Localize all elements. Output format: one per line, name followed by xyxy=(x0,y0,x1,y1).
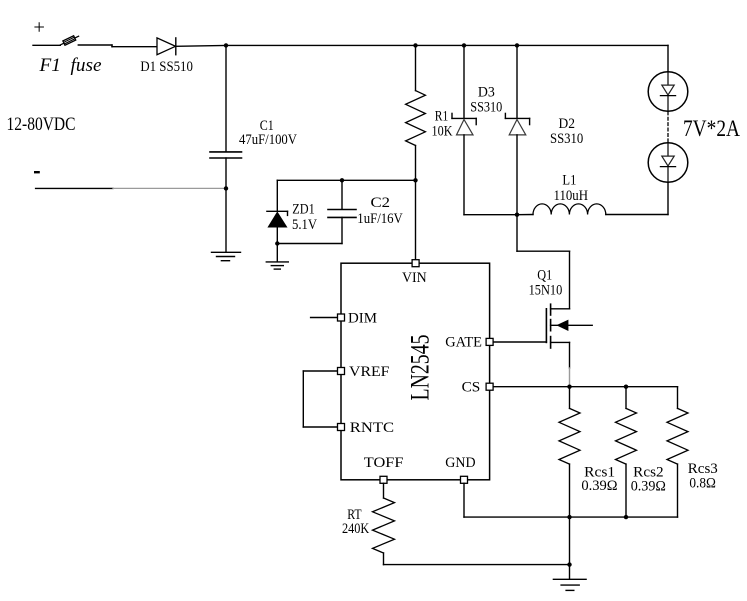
svg-text:GATE: GATE xyxy=(445,335,482,351)
svg-text:0.39Ω: 0.39Ω xyxy=(581,478,617,494)
wire minus rail (gray part) xyxy=(113,187,226,189)
resistor Rcs1 xyxy=(559,408,580,464)
svg-text:1uF/16V: 1uF/16V xyxy=(357,211,403,227)
LED lamp 2 xyxy=(648,143,688,183)
wire top rail to D2 xyxy=(516,45,518,118)
svg-text:15N10: 15N10 xyxy=(529,283,563,299)
wire GATE to Q1 gate xyxy=(493,341,546,343)
diode D1 xyxy=(157,38,176,55)
pin GATE xyxy=(486,338,493,345)
svg-text:DIM: DIM xyxy=(348,310,377,326)
wire R1 to VIN xyxy=(415,146,417,260)
wire D2 bottom lead xyxy=(516,135,518,215)
svg-text:5.1V: 5.1V xyxy=(292,217,317,233)
node junction ZD1 rail / C2 xyxy=(340,178,344,182)
resistor R1 xyxy=(406,91,426,146)
node - terminal xyxy=(34,171,40,173)
transistor Q1 15N10 xyxy=(546,251,592,387)
LED lamp 1 xyxy=(648,72,688,112)
diode D2 (schottky) xyxy=(505,113,529,134)
node junction RT rail / ground xyxy=(567,562,571,566)
resistor RT xyxy=(373,498,395,553)
wire Rcs2 bottom xyxy=(625,464,627,517)
wire C1 to ground xyxy=(225,158,227,252)
wire TOFF to RT xyxy=(383,483,385,498)
pin GND xyxy=(461,476,468,483)
node junction ZD1 rail / R1-VIN xyxy=(413,178,417,182)
wire bottom rail to ground xyxy=(569,517,571,579)
wire C2 bottom to ZD1 xyxy=(277,243,342,245)
node junction CS / Q1 source / Rcs1 xyxy=(567,385,571,389)
pin VREF xyxy=(338,368,345,375)
svg-text:0.8Ω: 0.8Ω xyxy=(689,476,716,492)
wire Rcs bottom rail xyxy=(464,516,678,518)
capacitor C2 xyxy=(328,210,356,218)
wire ZD1 top lead xyxy=(276,180,278,211)
wire ZD1 bottom lead xyxy=(276,227,278,261)
node junction top rail / D2 xyxy=(515,43,519,47)
wire D2 junction to Q1 drain xyxy=(517,215,570,252)
IC U1 LN2545 xyxy=(341,263,490,480)
wire CS rail to Rcs1 xyxy=(569,387,571,409)
svg-text:D3: D3 xyxy=(478,84,495,100)
wire top rail to C1 xyxy=(225,45,227,151)
svg-text:0.39Ω: 0.39Ω xyxy=(631,478,666,494)
svg-text:SS310: SS310 xyxy=(550,131,583,147)
node junction bottom rail / Rcs1 xyxy=(567,515,571,519)
svg-text:C2: C2 xyxy=(371,195,391,211)
svg-text:10K: 10K xyxy=(432,124,453,140)
wire Rcs1 bottom xyxy=(569,464,571,517)
svg-text:+: + xyxy=(33,17,45,39)
wire C2 bottom lead xyxy=(341,217,343,243)
ground bottom right xyxy=(553,579,586,590)
svg-text:Q1: Q1 xyxy=(537,268,552,284)
wire top rail down to LED1 xyxy=(667,45,669,71)
svg-text:VIN: VIN xyxy=(402,270,427,286)
resistor Rcs3 xyxy=(667,408,688,464)
wire RT bottom to ground node xyxy=(384,553,570,565)
svg-text:D1 SS510: D1 SS510 xyxy=(140,59,193,75)
wire top rail to R1 xyxy=(415,45,417,90)
node junction top rail / R1 xyxy=(413,43,417,47)
svg-text:12-80VDC: 12-80VDC xyxy=(7,114,76,135)
wire L1 to LED string xyxy=(606,182,668,214)
svg-text:GND: GND xyxy=(445,455,475,471)
svg-text:240K: 240K xyxy=(342,521,370,537)
wire plus input to fuse xyxy=(33,44,60,46)
svg-text:Rcs3: Rcs3 xyxy=(688,461,718,477)
wire CS rail xyxy=(493,386,678,388)
zener diode ZD1 xyxy=(267,211,288,227)
node junction top rail / C1 xyxy=(224,43,228,47)
node junction minus rail / C1 xyxy=(224,186,228,190)
svg-text:F1 fuse: F1 fuse xyxy=(38,55,101,76)
svg-text:110uH: 110uH xyxy=(554,188,589,204)
svg-text:7V*2A: 7V*2A xyxy=(683,116,740,141)
pin TOFF xyxy=(380,476,387,483)
wire C2 top lead xyxy=(341,180,343,209)
svg-text:R1: R1 xyxy=(435,108,449,124)
wire junction to L1 xyxy=(517,214,533,216)
wire CS rail corner to Rcs3 xyxy=(677,387,679,409)
ground below C1 xyxy=(212,252,241,260)
wire VREF to RNTC loop xyxy=(303,371,337,427)
wire dotted LED1 to LED2 xyxy=(667,112,669,143)
wire D1 to top rail junction xyxy=(176,44,226,47)
svg-text:VREF: VREF xyxy=(349,364,390,380)
fuse F1 xyxy=(60,36,78,46)
wire GND pin down xyxy=(463,483,465,517)
pin CS xyxy=(486,383,493,390)
svg-text:RNTC: RNTC xyxy=(350,420,394,436)
svg-text:CS: CS xyxy=(462,379,481,395)
wire top rail xyxy=(226,44,668,46)
svg-text:D2: D2 xyxy=(559,116,576,132)
resistor Rcs2 xyxy=(616,408,637,464)
ground below ZD1 xyxy=(266,262,288,269)
capacitor C1 xyxy=(210,152,242,158)
pin DIM xyxy=(338,314,345,321)
svg-text:47uF/100V: 47uF/100V xyxy=(239,132,297,148)
wire D3 bottom lead xyxy=(463,135,465,215)
node junction ZD1 / C2 bottom xyxy=(275,241,279,245)
wire D3 to L1 junction xyxy=(464,214,517,216)
wire fuse to D1 xyxy=(78,45,157,47)
wire CS rail to Rcs2 xyxy=(625,387,627,409)
inductor L1 xyxy=(533,204,606,215)
svg-text:TOFF: TOFF xyxy=(364,455,404,471)
svg-text:LN2545: LN2545 xyxy=(404,335,434,401)
node junction D2 / L1 / Q1 drain xyxy=(515,213,519,217)
node junction CS / Rcs2 xyxy=(624,385,628,389)
svg-text:SS310: SS310 xyxy=(470,99,502,115)
svg-text:L1: L1 xyxy=(562,172,576,188)
wire DIM input xyxy=(311,317,338,319)
wire top rail to D3 xyxy=(463,45,465,118)
wire minus rail (black part) xyxy=(36,187,113,189)
pin RNTC xyxy=(338,424,345,431)
wire ZD1 rail (top) xyxy=(277,179,415,181)
node junction top rail / D3 xyxy=(462,43,466,47)
wire Rcs3 bottom xyxy=(677,464,679,517)
diode D3 (schottky) xyxy=(452,113,476,134)
node junction bottom rail / Rcs2 xyxy=(624,515,628,519)
svg-text:ZD1: ZD1 xyxy=(292,202,315,218)
pin VIN xyxy=(412,260,419,267)
